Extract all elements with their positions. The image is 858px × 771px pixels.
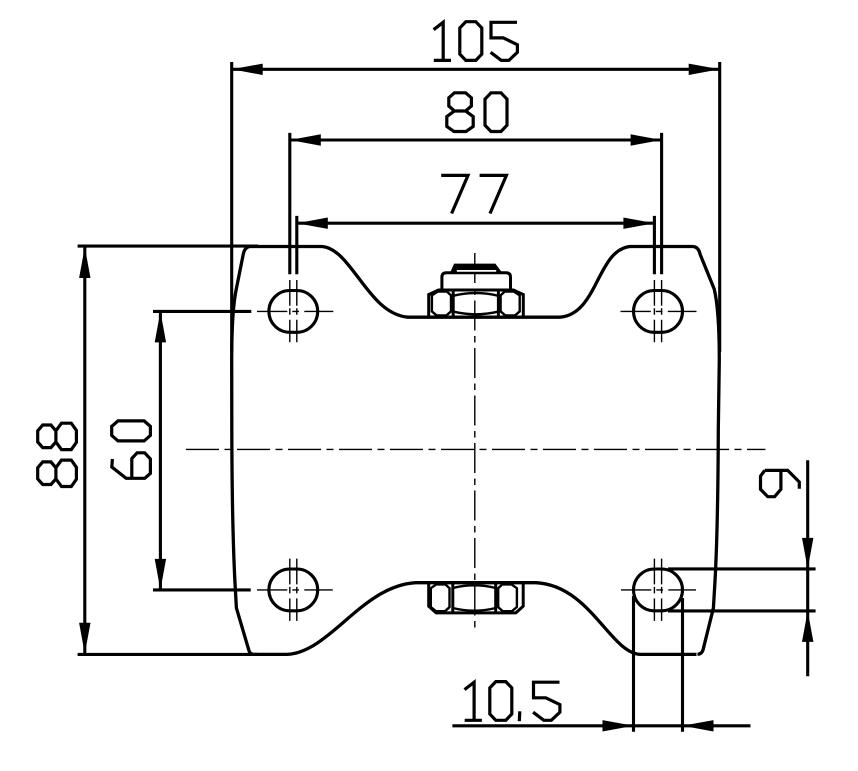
hole centerlines bottom-right	[621, 589, 696, 591]
slotted hole bottom-left	[269, 569, 318, 611]
bottom nut left face inset	[431, 584, 450, 611]
top nut center face lens	[453, 293, 498, 314]
slotted hole top-left	[269, 291, 318, 333]
plate top edge with raised contour	[250, 247, 693, 318]
top hex nut body	[429, 290, 524, 317]
dim 60 line	[159, 311, 162, 590]
slotted hole bottom-right	[634, 569, 683, 611]
hole centerlines bottom-left	[257, 589, 333, 591]
dim 88 extension lines	[78, 246, 258, 654]
dim 105 text	[434, 22, 518, 61]
hole centerlines top-right	[621, 310, 697, 312]
dim 88 text (rotated)	[38, 423, 77, 449]
dim 88 arrows	[79, 247, 90, 278]
bottom nut center face lens	[453, 585, 496, 610]
dim 77 extension lines	[297, 216, 655, 274]
dim 60 arrows	[155, 311, 166, 342]
top nut right face inset	[501, 292, 520, 316]
dim 105 arrows	[232, 64, 263, 75]
top nut left face inset	[432, 292, 451, 316]
bottom nut right face inset	[498, 584, 517, 611]
slotted hole top-right	[634, 291, 683, 333]
dim 80 text	[447, 93, 507, 132]
dim 88 line	[83, 246, 86, 654]
dim 9 arrows (outside)	[802, 538, 813, 569]
bottom hex nut body	[429, 583, 524, 613]
dim 77 line	[297, 222, 655, 225]
horizontal centerline	[186, 448, 765, 450]
top nut bolt tip (filled)	[451, 264, 501, 272]
dim 9 text (rotated)	[761, 470, 800, 496]
dim 60 text (rotated)	[112, 421, 151, 441]
top nut nylon collar	[442, 273, 511, 290]
top nut face lines	[453, 290, 498, 317]
dim 80 line	[290, 138, 662, 141]
dim 77 arrows	[297, 218, 328, 229]
dim 10.5 arrows (outside)	[603, 720, 634, 731]
dim 60 extension lines	[153, 311, 251, 590]
plate left edge	[232, 247, 254, 655]
dim 80 extension lines	[290, 133, 662, 274]
dim 77 text	[441, 175, 506, 213]
dim 10.5 extension lines	[634, 596, 683, 732]
dim 105 extension lines	[232, 62, 720, 352]
hole centerlines top-left	[257, 310, 333, 312]
dim 10.5 line	[452, 724, 750, 727]
bottom nut face lines	[453, 583, 496, 613]
plate right edge	[693, 247, 719, 655]
dim 9 line	[806, 460, 809, 676]
dim 10.5 text	[465, 682, 560, 722]
plate bottom edge with contour	[254, 583, 697, 655]
dim 80 arrows	[290, 134, 321, 145]
dim 9 extension lines	[668, 569, 816, 611]
vertical centerline	[474, 253, 476, 631]
dim 105 line	[232, 68, 720, 71]
